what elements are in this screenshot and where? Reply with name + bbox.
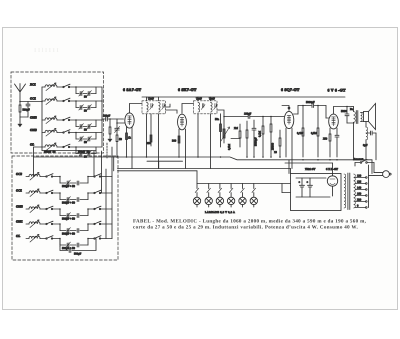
- svg-text:LAMPADE 6,3 V 0,3 A: LAMPADE 6,3 V 0,3 A: [205, 211, 235, 214]
- svg-text:110: 110: [357, 175, 362, 178]
- wire lamp bus: [197, 183, 291, 185]
- svg-text:500pF + 50: 500pF + 50: [62, 247, 76, 250]
- wire join to ground: [20, 116, 28, 118]
- svg-text:0,1M: 0,1M: [297, 132, 303, 135]
- screen supply line: [142, 96, 345, 98]
- field coil loudspeaker: [365, 122, 367, 128]
- heater bus 2: [118, 170, 198, 172]
- lamp LP5 with switch: [242, 184, 244, 189]
- svg-text:0,1M: 0,1M: [259, 131, 262, 137]
- svg-text:OM2: OM2: [30, 116, 37, 120]
- wire detector to V3 grid: [263, 116, 284, 118]
- loudspeaker: [364, 112, 369, 122]
- svg-text:OC1: OC1: [30, 97, 36, 101]
- svg-text:OM2: OM2: [16, 205, 23, 209]
- wire ground bus into power unit: [288, 160, 290, 174]
- resistor diode load: [246, 121, 248, 130]
- ground bus: [34, 157, 373, 160]
- wire heater detail V1 V2: [147, 160, 183, 162]
- svg-text:OC1: OC1: [16, 189, 22, 193]
- wire rectifier plate feed: [285, 162, 333, 164]
- wire row OM2 to trimmer bus: [69, 119, 102, 121]
- diode load network: [224, 116, 248, 118]
- svg-text:500pF + 50: 500pF + 50: [62, 218, 76, 221]
- svg-text:OL: OL: [16, 234, 20, 238]
- switch S2a band selector: [57, 100, 63, 102]
- svg-text:6 V 6 -GT: 6 V 6 -GT: [328, 89, 346, 93]
- wire row OL to trimmer bus: [69, 146, 102, 148]
- resistor V3 decoupling: [302, 106, 304, 129]
- wire V1 plate to IFT1: [130, 104, 143, 113]
- svg-text:OM3: OM3: [30, 128, 37, 132]
- wire V1 grid: [117, 122, 125, 124]
- switch S2b oscillator: [40, 192, 46, 194]
- svg-text:500pF + 50: 500pF + 50: [62, 233, 76, 236]
- wire oscillator feedback loop: [60, 239, 96, 251]
- wire row OM3 to trimmer bus: [69, 132, 102, 134]
- resistor V4 cathode: [329, 128, 331, 134]
- wire transformer primary B+: [353, 122, 355, 160]
- wire B+ into power box: [371, 160, 373, 174]
- svg-text:750Ω 6V: 750Ω 6V: [305, 168, 315, 171]
- capacitor antenna series 500pF: [27, 102, 29, 105]
- IF transformer IFT1 (dashed): [142, 101, 166, 114]
- svg-text:2M: 2M: [234, 127, 238, 130]
- lamp LP2 with switch: [208, 184, 210, 189]
- svg-text:BC1: BC1: [29, 83, 36, 87]
- svg-text:500pF: 500pF: [74, 253, 82, 256]
- wire antenna node: [20, 101, 42, 103]
- wire row OC1 to trimmer bus: [69, 100, 102, 102]
- switch S3b oscillator: [40, 208, 46, 210]
- trimmer capacitors row OM3: [75, 133, 77, 140]
- svg-text:160: 160: [357, 193, 362, 196]
- svg-text:5000pF: 5000pF: [306, 101, 315, 104]
- power transformer T2 secondary: [354, 174, 356, 208]
- resistor grid leak: [109, 119, 111, 127]
- svg-text:6 SA7-GT: 6 SA7-GT: [123, 88, 142, 92]
- trimmer capacitors row OC1: [75, 101, 77, 108]
- svg-text:500pF + 50: 500pF + 50: [62, 185, 76, 188]
- resistor AVC 2M: [239, 124, 241, 131]
- svg-text:250: 250: [323, 138, 328, 141]
- wire aerial bus vertical: [41, 87, 43, 147]
- wire V1 cathode and screen to buses: [126, 127, 128, 157]
- wire box A right bus: [101, 87, 103, 147]
- svg-text:0,5M: 0,5M: [311, 132, 317, 135]
- wire IFT2 secondary to detector: [217, 110, 224, 117]
- svg-text:corte da 27 a 50 e da 25 a 29: corte da 27 a 50 e da 25 a 29 m. Indutta…: [133, 224, 358, 230]
- output transformer T1: [354, 112, 356, 123]
- power supply enclosure: [291, 174, 342, 211]
- resistor IF decoupling: [220, 114, 222, 147]
- svg-text:TMF: TMF: [209, 98, 215, 101]
- dashed enclosure: oscillator coil unit: [12, 156, 118, 260]
- volume potentiometer: [223, 126, 225, 143]
- capacitor IFT1 bypass: [150, 114, 152, 146]
- padder capacitors row OC1: [59, 193, 61, 200]
- svg-text:0,5M: 0,5M: [228, 144, 231, 150]
- svg-text:300: 300: [172, 140, 177, 143]
- transformer mains taps: [355, 177, 365, 179]
- svg-text:OM1: OM1: [16, 220, 23, 224]
- svg-text:TMF: TMF: [148, 98, 154, 101]
- wire box A bottom link: [41, 147, 43, 151]
- capacitor electrolytic 2: [309, 178, 311, 185]
- lamp LP6 with switch: [253, 184, 255, 189]
- switch S4c oscillator right: [88, 223, 94, 225]
- padder capacitors row OC2: [59, 177, 61, 184]
- wire V3 grid cap top: [282, 106, 289, 111]
- voltage selector: [368, 165, 370, 208]
- svg-text:500pF 50: 500pF 50: [78, 151, 90, 154]
- switch S5a band selector: [57, 146, 63, 148]
- mains plug: [374, 172, 383, 174]
- svg-text:5000: 5000: [341, 110, 347, 113]
- svg-text:100pF: 100pF: [103, 115, 111, 118]
- padder capacitors row OM1: [59, 224, 61, 231]
- capacitor field coil 8uF: [366, 132, 371, 134]
- capacitor tone 5000pF: [346, 107, 348, 114]
- wire V4 grid: [325, 106, 327, 119]
- svg-text:FABEL - Mod. MELODIC - Lunghe: FABEL - Mod. MELODIC - Lunghe da 1060 a …: [133, 219, 367, 225]
- resistor V3 bias: [270, 117, 272, 125]
- wire heater bus into power box: [290, 169, 292, 174]
- switch S3c oscillator right: [88, 208, 94, 210]
- svg-text:125: 125: [357, 181, 362, 184]
- svg-text:5000pF: 5000pF: [255, 137, 258, 146]
- antenna: [15, 84, 26, 102]
- capacitor cathode bypass: [336, 128, 338, 135]
- wire lamp return to power unit: [281, 184, 283, 193]
- IF transformer IFT2 (dashed): [194, 101, 218, 114]
- padder capacitors row OL: [59, 239, 61, 246]
- ground grid leak: [108, 139, 112, 142]
- capacitor detector 100pF: [247, 115, 249, 119]
- trimmer capacitors row BC1: [75, 87, 77, 94]
- wire V2 plate: [182, 104, 194, 114]
- switch S4a band selector: [57, 132, 63, 134]
- svg-text:OL: OL: [30, 143, 34, 147]
- wire oscillator coupling: [111, 147, 113, 169]
- wire IFT1 returns: [146, 114, 148, 157]
- capacitor grid coupling 100pF: [102, 118, 106, 120]
- wire row BC1 to trimmer bus: [69, 86, 102, 88]
- svg-text:100pF: 100pF: [244, 113, 252, 116]
- switch S5b oscillator: [40, 238, 46, 240]
- lamp LP3 with switch: [219, 184, 221, 189]
- svg-text:6 X 5 -GT: 6 X 5 -GT: [326, 168, 338, 171]
- wire V3 plate coupling to V4: [298, 105, 305, 107]
- resistor grid V3: [262, 117, 264, 127]
- junction dots on ground bus: [116, 156, 118, 158]
- lamp LP4 with switch: [230, 184, 232, 189]
- ground antenna: [18, 124, 22, 127]
- dashed enclosure: antenna coil unit: [11, 72, 104, 153]
- capacitor coupling to output 5000pF: [305, 105, 311, 107]
- svg-text:OC2: OC2: [16, 172, 22, 176]
- wire IFT1 to V2 grid: [166, 104, 178, 113]
- wire V2 cathode screen: [178, 129, 180, 157]
- tuning gang capacitor: [116, 123, 118, 128]
- svg-text:Interrutt.: Interrutt.: [354, 158, 364, 161]
- switch S3a band selector: [57, 119, 63, 121]
- resistor V2 cathode: [178, 136, 180, 143]
- power transformer core: [347, 173, 349, 210]
- lamp LP1 with switch: [196, 184, 198, 189]
- svg-text:140: 140: [357, 187, 362, 190]
- power transformer T2 primary: [344, 174, 346, 208]
- resistor V3 plate load: [279, 130, 281, 138]
- svg-text:220: 220: [357, 199, 362, 202]
- switch S1b oscillator: [40, 176, 46, 178]
- svg-text:500pF: 500pF: [23, 109, 31, 112]
- svg-text:25000: 25000: [272, 142, 275, 150]
- mechanical tuning link (dashed): [106, 143, 108, 158]
- wire oscillator unit verticals: [105, 169, 107, 239]
- heater bus 1: [118, 168, 291, 170]
- svg-text:8μF: 8μF: [363, 144, 368, 147]
- svg-text:300: 300: [147, 142, 152, 145]
- svg-text:TMF: TMF: [196, 98, 202, 101]
- resistor antenna shunt: [19, 102, 21, 106]
- trimmer capacitors row OL: [75, 147, 77, 154]
- wire V3 plate and cathode: [294, 113, 299, 115]
- svg-text:I I l I I I I: I I l I I I I: [34, 47, 59, 54]
- trimmer capacitors row OM2: [75, 120, 77, 127]
- svg-text:500pF 50: 500pF 50: [44, 151, 56, 154]
- resistor V4 grid leak: [317, 106, 319, 129]
- wire V4 plate to output transformer: [334, 107, 353, 114]
- wire filter caps: [296, 177, 326, 179]
- switch S5c oscillator right: [88, 238, 94, 240]
- resistor V1 cathode: [126, 133, 128, 140]
- capacitor electrolytic 1: [301, 178, 303, 185]
- wire to mains plug: [373, 163, 375, 173]
- svg-text:500pF + 50: 500pF + 50: [62, 202, 76, 205]
- svg-text:6 SK7-GT: 6 SK7-GT: [178, 88, 197, 92]
- switch S4b oscillator: [40, 223, 46, 225]
- switch S1a band selector: [57, 86, 63, 88]
- wire ground bus left vertical: [33, 147, 35, 177]
- padder capacitors row OM2: [59, 209, 61, 216]
- svg-text:6 SQ7-GT: 6 SQ7-GT: [281, 88, 300, 92]
- wire AVC line: [231, 138, 240, 140]
- switch S1c oscillator right: [88, 176, 94, 178]
- switch S2c oscillator right: [88, 192, 94, 194]
- capacitor AF coupling: [253, 120, 255, 128]
